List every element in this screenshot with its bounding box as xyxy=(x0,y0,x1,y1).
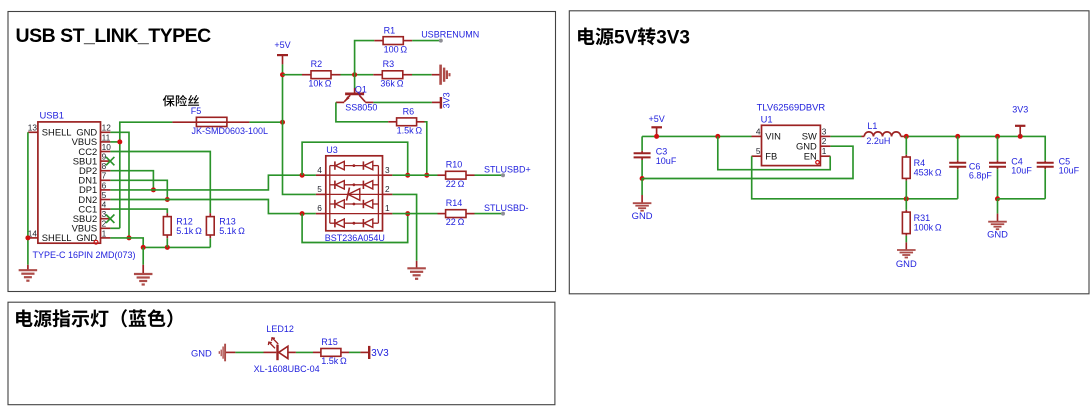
svg-text:3V3: 3V3 xyxy=(656,28,690,49)
wire GND bottom rail xyxy=(129,238,210,248)
svg-text:5: 5 xyxy=(756,146,761,156)
label 保险丝 xyxy=(163,95,199,107)
junction bypass R10 row xyxy=(405,173,410,178)
svg-text:22 Ω: 22 Ω xyxy=(446,217,465,227)
svg-text:R6: R6 xyxy=(403,106,415,116)
svg-text:1: 1 xyxy=(822,146,827,156)
capacitor C3 xyxy=(641,136,643,150)
svg-text:+5V: +5V xyxy=(648,114,664,124)
wire EN loop xyxy=(718,136,830,169)
svg-text:R15: R15 xyxy=(321,337,338,347)
svg-text:1: 1 xyxy=(385,203,390,213)
svg-text:7: 7 xyxy=(102,171,107,181)
ground under shell xyxy=(27,265,29,270)
svg-text:4: 4 xyxy=(756,126,761,136)
svg-text:R10: R10 xyxy=(446,160,463,170)
wire base to R1 row xyxy=(355,41,375,75)
svg-text:USB ST_LINK_TYPEC: USB ST_LINK_TYPEC xyxy=(16,25,212,47)
svg-text:VIN: VIN xyxy=(765,131,781,142)
svg-text:TYPE-C 16PIN 2MD(073): TYPE-C 16PIN 2MD(073) xyxy=(33,250,136,260)
net port USBRENUMN xyxy=(439,39,443,43)
svg-text:SHELL: SHELL xyxy=(42,232,72,243)
svg-text:453k Ω: 453k Ω xyxy=(914,167,942,177)
junction R4 top xyxy=(904,134,909,139)
resistor R13 xyxy=(206,217,214,235)
wire Q1 emitter to R6 xyxy=(336,102,388,121)
svg-text:10k Ω: 10k Ω xyxy=(308,78,331,88)
svg-text:SS8050: SS8050 xyxy=(345,102,377,112)
esd array U3 xyxy=(326,156,383,231)
junction fuse +5V xyxy=(280,120,285,125)
wire R2 to R3 xyxy=(341,74,374,76)
svg-text:22 Ω: 22 Ω xyxy=(446,179,465,189)
svg-text:3: 3 xyxy=(385,165,390,175)
junction bypass R14 row xyxy=(405,211,410,216)
junction GND ground drop xyxy=(141,245,146,250)
svg-text:13: 13 xyxy=(28,123,38,133)
svg-text:1.5k Ω: 1.5k Ω xyxy=(321,356,347,366)
ground under connector center xyxy=(142,247,144,264)
svg-text:USB1: USB1 xyxy=(40,109,65,120)
ground rotated after R3 xyxy=(432,74,440,76)
junction C3 gnd xyxy=(640,176,645,181)
no-connect X pin9 xyxy=(106,157,114,165)
wire VBUS pin2 stub xyxy=(110,227,119,229)
junction C6 top xyxy=(955,134,960,139)
svg-text:6.8pF: 6.8pF xyxy=(969,170,993,180)
wire R6 to D+ xyxy=(425,122,427,175)
svg-text:4: 4 xyxy=(102,200,107,210)
svg-text:5: 5 xyxy=(102,190,107,200)
title 5V to 3V3 xyxy=(578,27,614,45)
svg-text:BST236A054U: BST236A054U xyxy=(325,233,385,243)
ground under U3 xyxy=(416,261,418,269)
resistor R4 xyxy=(905,136,907,154)
resistor R12 xyxy=(163,217,171,235)
svg-text:3V3: 3V3 xyxy=(1012,104,1028,114)
svg-text:5.1k Ω: 5.1k Ω xyxy=(176,226,202,236)
wire R12 bottom xyxy=(166,235,168,238)
svg-text:GND: GND xyxy=(191,347,212,358)
junction DN join xyxy=(165,197,170,202)
resistor R2 xyxy=(283,74,303,76)
resistor R3 xyxy=(373,74,382,76)
title power LED xyxy=(16,309,172,327)
svg-text:36k Ω: 36k Ω xyxy=(380,78,403,88)
wire CC2 to R13 xyxy=(110,152,210,214)
junction VBUS pin11 xyxy=(117,139,122,144)
capacitor C4 xyxy=(997,136,999,160)
capacitor C5 xyxy=(1044,161,1046,163)
resistor R6 xyxy=(388,121,396,123)
wire GND pin12 xyxy=(110,132,129,238)
svg-text:GND: GND xyxy=(896,258,917,269)
wire R3 to ground xyxy=(412,74,432,76)
junction EN tap xyxy=(715,134,720,139)
ground flag sideways section3 xyxy=(224,344,226,362)
svg-text:10uF: 10uF xyxy=(1011,165,1032,175)
junction D- bypass xyxy=(300,211,305,216)
svg-text:LED12: LED12 xyxy=(266,324,294,334)
ground under C4 xyxy=(997,199,999,214)
wire CC1 to R12 xyxy=(110,209,167,213)
svg-text:L1: L1 xyxy=(867,121,877,131)
svg-text:U3: U3 xyxy=(326,145,338,155)
svg-text:100k Ω: 100k Ω xyxy=(914,222,942,232)
junction D+ bypass xyxy=(300,173,305,178)
section frame 5V to 3V3 xyxy=(569,11,1089,294)
wire R10 to port xyxy=(475,174,504,176)
svg-text:STLUSBD+: STLUSBD+ xyxy=(484,164,531,174)
junction +5V flag xyxy=(654,134,659,139)
wire GND return xyxy=(642,146,853,178)
resistor R10 xyxy=(438,174,446,176)
resistor R14 xyxy=(438,213,446,215)
svg-text:3: 3 xyxy=(822,126,827,136)
wire R14 to port xyxy=(475,213,504,215)
svg-text:8: 8 xyxy=(102,161,107,171)
wire VBUS vertical xyxy=(120,122,173,228)
ground under R31 xyxy=(905,242,907,250)
svg-text:6: 6 xyxy=(317,203,322,213)
svg-text:U1: U1 xyxy=(761,113,773,124)
junction +5V R2 row xyxy=(280,72,285,77)
svg-text:2.2uH: 2.2uH xyxy=(866,136,890,146)
wire +5V rail to VIN xyxy=(642,135,751,137)
net port STLUSBD+ xyxy=(501,173,505,177)
svg-text:2: 2 xyxy=(822,136,827,146)
junction R6 D+ xyxy=(424,173,429,178)
fuse F5 xyxy=(196,117,227,126)
power flag 3V3 section3 xyxy=(360,351,368,353)
junction R12 bottom xyxy=(165,245,170,250)
svg-text:GND: GND xyxy=(987,229,1008,240)
wire VBUS pin11 stub xyxy=(110,141,119,143)
svg-text:5V: 5V xyxy=(614,28,638,49)
svg-text:EN: EN xyxy=(804,151,817,162)
wire R13 bottom xyxy=(209,235,211,238)
svg-text:Q1: Q1 xyxy=(355,85,367,95)
svg-text:GND: GND xyxy=(632,210,653,221)
wire DP2 xyxy=(110,171,153,190)
svg-text:F5: F5 xyxy=(191,106,202,116)
svg-text:5.1k Ω: 5.1k Ω xyxy=(219,226,245,236)
led LED12 xyxy=(264,351,277,353)
junction FB divider xyxy=(904,196,909,201)
junction SHELL pin14 xyxy=(25,235,30,240)
wire fuse to +5V rail xyxy=(249,121,282,123)
ground under C3 xyxy=(641,179,643,196)
svg-text:6: 6 xyxy=(102,180,107,190)
wire SW to L1 xyxy=(830,135,861,137)
wire U3 top bypass xyxy=(302,142,408,175)
svg-text:R2: R2 xyxy=(311,59,323,69)
inductor L1 xyxy=(864,132,873,137)
svg-text:SHELL: SHELL xyxy=(42,127,72,138)
regulator U1 xyxy=(762,125,821,165)
wire U3 pin2 to ground xyxy=(392,194,416,260)
svg-text:R3: R3 xyxy=(383,59,395,69)
wire Q1 collector to 3V3 xyxy=(373,101,432,103)
wire GND to LED xyxy=(235,351,263,353)
wire LED to R15 xyxy=(296,351,313,353)
svg-text:10uF: 10uF xyxy=(656,156,677,166)
svg-text:XL-1608UBC-04: XL-1608UBC-04 xyxy=(254,364,320,374)
svg-text:R14: R14 xyxy=(446,198,463,208)
transistor Q1 xyxy=(354,75,356,88)
wire C5 bottom xyxy=(998,198,1046,200)
wire D- to U3 pin6 xyxy=(110,200,316,214)
svg-text:TLV62569DBVR: TLV62569DBVR xyxy=(757,102,826,113)
junction base node xyxy=(352,72,357,77)
wire SHELL vertical xyxy=(27,132,29,264)
wire R1 to USBRENUMN xyxy=(412,40,441,42)
svg-text:2: 2 xyxy=(102,219,107,229)
wire U3 pin1 to R14 xyxy=(392,213,437,215)
section frame power LED xyxy=(8,302,555,405)
svg-text:R1: R1 xyxy=(384,25,396,35)
svg-text:+5V: +5V xyxy=(274,40,290,50)
section frame USB ST_LINK_TYPEC xyxy=(8,12,556,292)
net port STLUSBD- xyxy=(501,212,505,216)
wire D+ to U3 pin4 xyxy=(110,175,316,190)
svg-text:3: 3 xyxy=(102,209,107,219)
resistor R31 xyxy=(905,199,907,210)
svg-text:100 Ω: 100 Ω xyxy=(384,44,408,54)
wire U3 pin3 to R10 xyxy=(392,174,437,176)
svg-text:3V3: 3V3 xyxy=(442,92,452,108)
svg-text:10: 10 xyxy=(102,142,112,152)
svg-text:1: 1 xyxy=(102,228,107,238)
svg-text:1.5k Ω: 1.5k Ω xyxy=(397,126,423,136)
connector USB1 xyxy=(38,122,101,243)
svg-text:9: 9 xyxy=(102,152,107,162)
power flag 3V3 section1 xyxy=(432,101,440,103)
junction GND pin1 xyxy=(127,235,132,240)
wire +5V vertical xyxy=(283,64,316,194)
junction C4 gnd xyxy=(995,196,1000,201)
resistor R1 xyxy=(374,40,383,42)
svg-text:FB: FB xyxy=(765,151,777,162)
svg-text:5: 5 xyxy=(317,184,322,194)
wire DN1 xyxy=(110,180,167,199)
wire 3V3 rail xyxy=(901,135,904,137)
svg-text:11: 11 xyxy=(102,132,111,142)
svg-text:2: 2 xyxy=(385,184,390,194)
capacitor C6 xyxy=(957,136,959,160)
junction 3V3 flag xyxy=(1018,134,1023,139)
junction C4 top xyxy=(995,134,1000,139)
svg-text:STLUSBD-: STLUSBD- xyxy=(484,203,529,213)
svg-text:3V3: 3V3 xyxy=(371,348,389,359)
svg-text:JK-SMD0603-100L: JK-SMD0603-100L xyxy=(192,126,269,136)
no-connect X pin3 xyxy=(106,215,114,223)
wire R15 to 3V3 xyxy=(349,351,360,353)
resistor R15 xyxy=(313,351,321,353)
svg-text:USBRENUMN: USBRENUMN xyxy=(421,29,479,39)
svg-text:12: 12 xyxy=(102,123,112,133)
svg-text:4: 4 xyxy=(317,165,322,175)
wire FB xyxy=(752,156,958,199)
wire GND pin1 stub xyxy=(110,237,129,239)
wire U3 bottom bypass xyxy=(302,214,408,243)
svg-text:10uF: 10uF xyxy=(1059,165,1080,175)
junction DP join xyxy=(151,187,156,192)
